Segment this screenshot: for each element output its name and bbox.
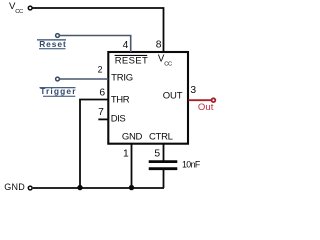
svg-text:6: 6 bbox=[99, 88, 105, 99]
svg-text:10nF: 10nF bbox=[182, 159, 201, 169]
svg-text:DIS: DIS bbox=[111, 113, 126, 124]
svg-text:RESET: RESET bbox=[115, 56, 148, 67]
svg-text:7: 7 bbox=[98, 107, 104, 118]
svg-text:4: 4 bbox=[123, 40, 129, 51]
svg-text:TRIG: TRIG bbox=[111, 73, 133, 84]
svg-text:CC: CC bbox=[164, 61, 172, 67]
svg-text:GND: GND bbox=[4, 182, 25, 192]
svg-text:Trigger: Trigger bbox=[40, 86, 76, 96]
svg-text:3: 3 bbox=[190, 85, 196, 96]
svg-text:THR: THR bbox=[111, 95, 130, 106]
svg-text:8: 8 bbox=[156, 40, 162, 51]
svg-text:Out: Out bbox=[198, 102, 214, 113]
svg-text:CTRL: CTRL bbox=[149, 132, 173, 143]
svg-text:GND: GND bbox=[122, 132, 143, 143]
svg-text:5: 5 bbox=[154, 148, 160, 159]
svg-text:OUT: OUT bbox=[163, 91, 183, 102]
svg-text:1: 1 bbox=[123, 148, 129, 159]
svg-text:Reset: Reset bbox=[39, 39, 67, 49]
svg-text:2: 2 bbox=[98, 65, 103, 75]
svg-text:CC: CC bbox=[15, 9, 23, 15]
